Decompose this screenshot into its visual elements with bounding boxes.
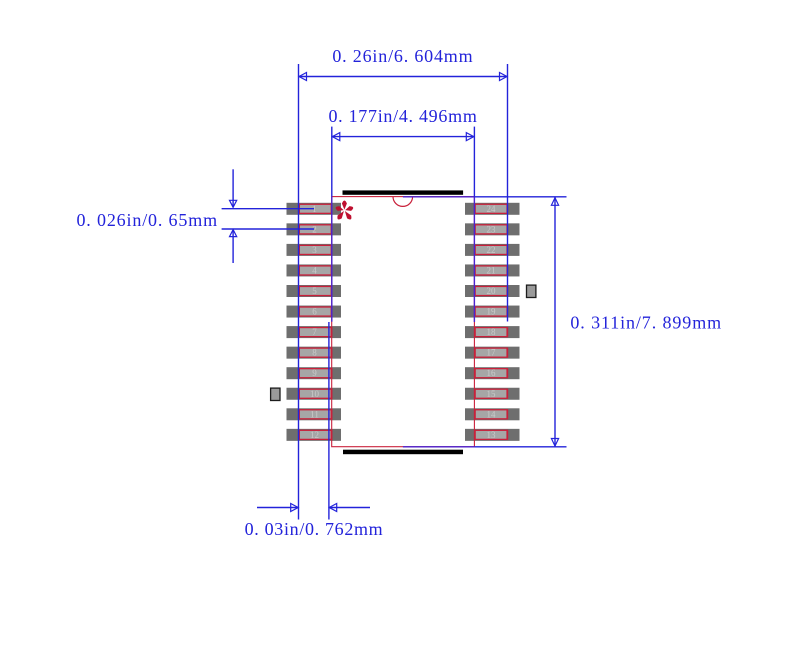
svg-text:6: 6 xyxy=(312,307,317,317)
svg-text:3: 3 xyxy=(312,245,317,255)
svg-text:15: 15 xyxy=(487,389,497,399)
svg-text:19: 19 xyxy=(487,307,497,317)
svg-text:14: 14 xyxy=(487,409,497,419)
svg-text:0. 311in/7. 899mm: 0. 311in/7. 899mm xyxy=(570,312,722,332)
svg-text:1: 1 xyxy=(312,204,317,214)
svg-text:16: 16 xyxy=(487,368,497,378)
svg-text:8: 8 xyxy=(312,348,317,358)
svg-text:20: 20 xyxy=(487,286,497,296)
svg-text:23: 23 xyxy=(487,224,497,234)
svg-text:17: 17 xyxy=(487,348,497,358)
svg-text:18: 18 xyxy=(487,327,497,337)
svg-text:24: 24 xyxy=(487,204,497,214)
svg-text:7: 7 xyxy=(312,327,317,337)
svg-text:2: 2 xyxy=(312,224,317,234)
svg-text:0. 177in/4. 496mm: 0. 177in/4. 496mm xyxy=(328,106,477,126)
svg-text:9: 9 xyxy=(312,368,317,378)
svg-text:11: 11 xyxy=(310,409,319,419)
svg-text:22: 22 xyxy=(487,245,496,255)
svg-text:21: 21 xyxy=(487,265,496,275)
svg-text:0. 26in/6. 604mm: 0. 26in/6. 604mm xyxy=(332,46,473,66)
svg-text:4: 4 xyxy=(312,265,317,275)
svg-text:13: 13 xyxy=(487,430,497,440)
svg-text:5: 5 xyxy=(312,286,317,296)
svg-text:12: 12 xyxy=(310,430,319,440)
svg-text:0. 03in/0. 762mm: 0. 03in/0. 762mm xyxy=(245,519,384,539)
svg-text:10: 10 xyxy=(310,389,320,399)
svg-text:0. 026in/0. 65mm: 0. 026in/0. 65mm xyxy=(76,210,217,230)
